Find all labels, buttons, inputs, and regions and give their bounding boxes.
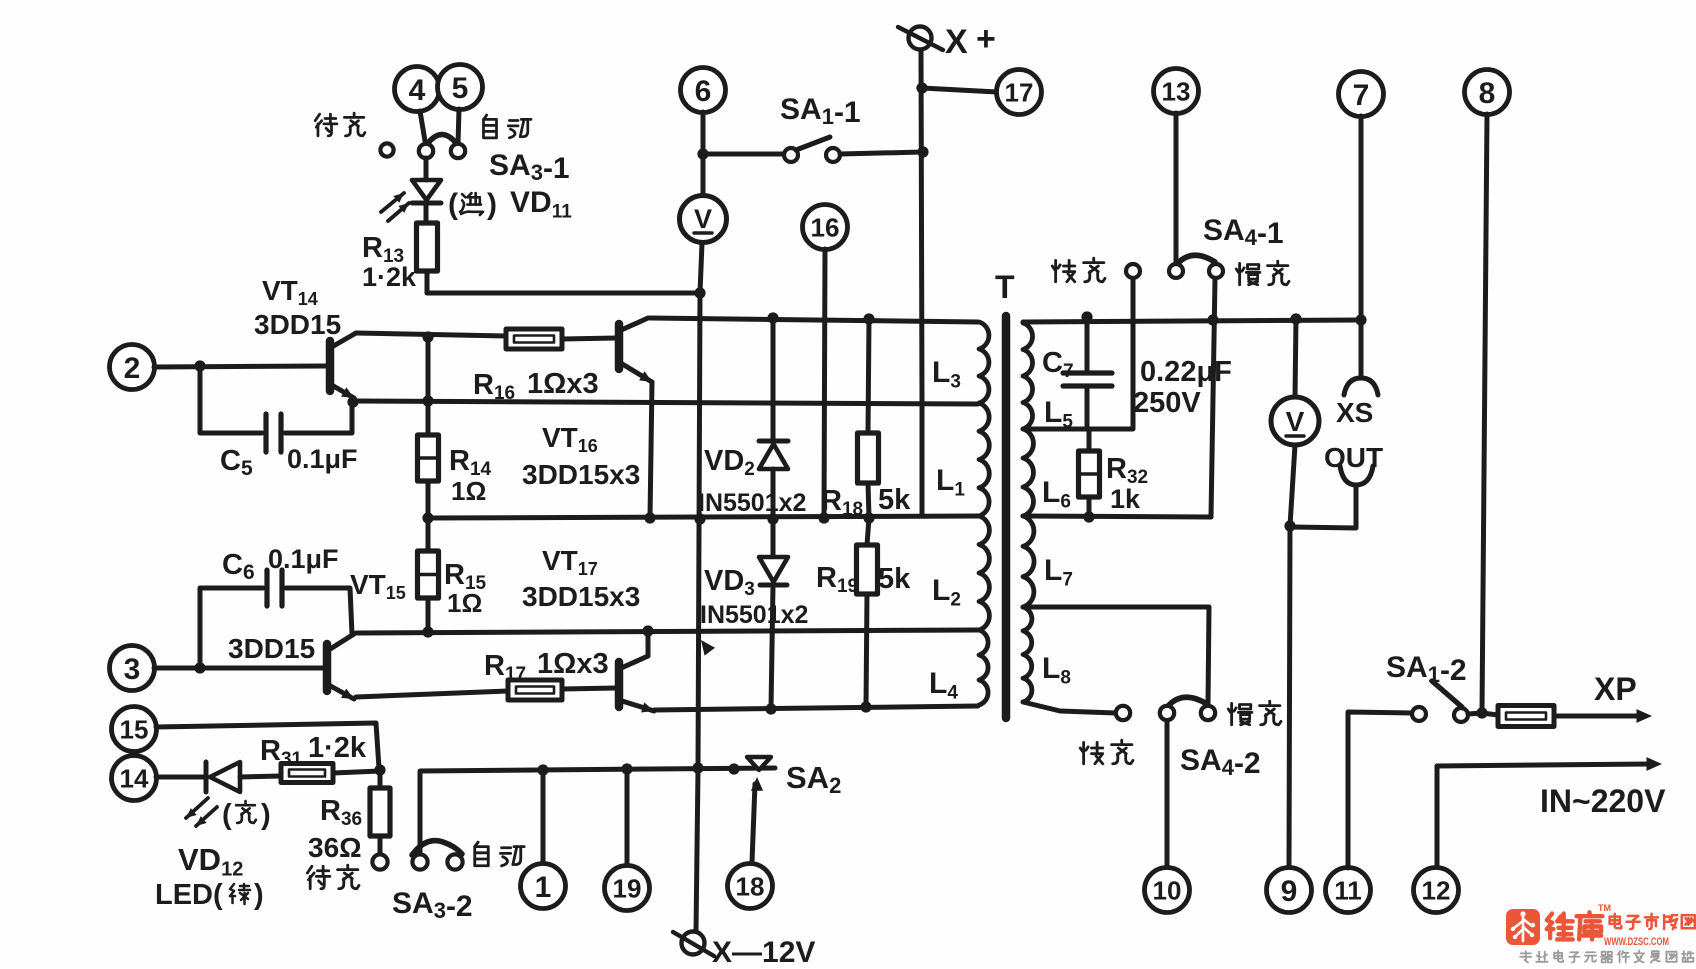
svg-text:3DD15x3: 3DD15x3 <box>522 581 640 612</box>
fuse FU <box>1482 706 1652 727</box>
svg-text:2: 2 <box>124 352 141 385</box>
wire to circle 1 <box>541 770 546 862</box>
transistor VT17 <box>619 656 654 713</box>
label 3DD15x3 (VT16) <box>522 459 640 490</box>
svg-text:T: T <box>995 269 1015 305</box>
label IN5501x2 (VD2) <box>698 489 806 517</box>
transistor VT15 <box>327 634 354 699</box>
label L6 <box>1042 476 1071 512</box>
switch SA1-1 lever <box>796 137 830 150</box>
switch SA2 plug arrow <box>751 777 763 862</box>
watermark dzsc logo <box>1506 903 1695 962</box>
label 0.1uF (C5) <box>287 444 358 474</box>
terminal circle 4 <box>395 67 440 112</box>
svg-text:3: 3 <box>124 653 141 686</box>
svg-text:SA4-2: SA4-2 <box>1180 744 1261 780</box>
label R16 1ohm x3 <box>473 368 599 404</box>
svg-text:SA3-1: SA3-1 <box>489 149 570 185</box>
winding L6 <box>1023 429 1033 516</box>
label 1ohm (R15) <box>447 588 482 618</box>
label VT15 <box>350 569 406 603</box>
switch SA1-2 left contact <box>1412 707 1426 721</box>
terminal X-12V <box>673 932 714 957</box>
resistor R13 <box>417 223 438 293</box>
terminal circle 7 <box>1339 72 1384 117</box>
wire 3 to base <box>154 662 323 673</box>
svg-text:19: 19 <box>613 873 642 903</box>
svg-text:1Ωx3: 1Ωx3 <box>527 368 599 400</box>
wire main vertical <box>692 293 703 774</box>
resistor R18 <box>858 433 879 518</box>
switch SA3-2 left contact <box>412 854 427 869</box>
label VT14 <box>262 275 318 309</box>
svg-text:(: ( <box>448 188 458 221</box>
winding L7 <box>1023 516 1034 607</box>
wire rail D <box>356 625 978 636</box>
svg-text:V: V <box>694 204 712 234</box>
wire slow contact down <box>1211 279 1215 517</box>
switch SA3-1 idle contact <box>380 143 393 156</box>
wire V2 to circle 9 <box>1289 526 1290 866</box>
wire 7 down <box>1359 116 1364 320</box>
svg-text:X—12V: X—12V <box>712 936 815 964</box>
label SA3-2 <box>392 887 473 923</box>
label L3 <box>932 356 961 392</box>
arrow on main vertical <box>701 640 715 656</box>
wire rail A right <box>562 338 617 339</box>
LED VD11 arrows <box>381 193 409 221</box>
resistor R16 <box>506 329 562 349</box>
label VT17 <box>542 545 598 579</box>
label L5 <box>1044 396 1073 432</box>
wire L6 tap rail <box>1023 511 1211 522</box>
label XP <box>1594 671 1637 707</box>
label SA3-1 <box>489 149 570 185</box>
label SA1-1 <box>780 93 861 129</box>
svg-text:V: V <box>1286 406 1305 437</box>
label T <box>995 269 1015 305</box>
svg-text:SA1-2: SA1-2 <box>1386 651 1467 687</box>
label 1ohm (R14) <box>451 476 486 506</box>
svg-text:7: 7 <box>1353 79 1370 112</box>
switch SA4-1 bridge <box>1178 255 1215 263</box>
transformer core <box>1002 316 1011 718</box>
wire 8 down <box>1476 114 1487 719</box>
label 3DD15 (VT15) <box>228 633 315 664</box>
label SA2 <box>786 760 841 798</box>
switch SA2 contact <box>747 757 771 770</box>
wire SA1-2 to node <box>1468 713 1482 714</box>
label X-12V <box>712 936 815 969</box>
svg-text:LED(: LED( <box>155 879 223 911</box>
svg-text:WWW.DZSC.COM: WWW.DZSC.COM <box>1604 936 1669 948</box>
label VD3 <box>704 565 755 600</box>
wire 14 to VD12 <box>156 775 206 780</box>
wire R13 to main vertical <box>427 287 706 298</box>
switch SA4-2 left contact <box>1116 706 1130 720</box>
meter V1 <box>680 196 727 243</box>
resistor R15 <box>418 518 439 638</box>
terminal circle 14 <box>112 756 157 801</box>
svg-text:SA4-1: SA4-1 <box>1203 214 1284 250</box>
switch SA4-2 bridge <box>1169 697 1207 705</box>
svg-text:11: 11 <box>1334 875 1362 905</box>
wire L7 tap rail <box>1023 607 1209 704</box>
svg-text:12: 12 <box>1422 875 1451 905</box>
label C7 <box>1042 347 1074 382</box>
node to circle 19 <box>621 763 632 774</box>
terminal circle 13 <box>1154 69 1199 114</box>
resistor R14 <box>418 435 439 481</box>
switch SA1-1 right contact <box>826 148 840 162</box>
label R31 1.2k <box>260 732 367 770</box>
terminal circle 19 <box>605 866 650 911</box>
svg-text:16: 16 <box>811 212 840 242</box>
label C5 <box>220 445 253 480</box>
switch SA4-1 slow contact <box>1209 264 1223 278</box>
capacitor C6 loop <box>200 570 352 668</box>
wire secondary top rail <box>1023 311 1367 325</box>
svg-text:): ) <box>254 879 264 911</box>
svg-text:1Ω: 1Ω <box>447 588 482 618</box>
label 待充 (bottom) <box>307 865 359 889</box>
label SA4-1 <box>1203 214 1284 250</box>
terminal circle 11 <box>1326 868 1371 913</box>
svg-text:1·2k: 1·2k <box>362 262 417 292</box>
svg-text:15: 15 <box>120 714 149 744</box>
switch SA4-2 slow contact <box>1201 706 1215 720</box>
terminal circle 2 <box>110 345 155 390</box>
svg-text:1·2k: 1·2k <box>308 732 367 764</box>
svg-text:+: + <box>976 20 996 58</box>
resistor R17 <box>508 680 562 700</box>
diode VD12 <box>206 762 281 792</box>
switch SA3-2 bridge <box>412 841 462 855</box>
svg-text:(: ( <box>222 799 232 831</box>
wire rail E <box>654 701 978 714</box>
svg-text:X: X <box>945 23 968 61</box>
wire SA1-1 rail <box>703 152 784 157</box>
svg-text:3DD15: 3DD15 <box>254 309 341 340</box>
wire 2 to base <box>154 360 326 371</box>
wire R14 to rail C <box>422 481 433 524</box>
svg-text:): ) <box>261 799 271 831</box>
node SA1-1 tap <box>697 148 708 159</box>
wire 15 rail <box>156 723 379 768</box>
svg-text:3DD15x3: 3DD15x3 <box>522 459 640 490</box>
switch SA3-2 right contact <box>447 854 462 869</box>
svg-text:13: 13 <box>1162 76 1191 106</box>
wire X+ vertical <box>921 50 922 403</box>
resistor R36 <box>370 770 390 854</box>
wire top rail primary <box>650 318 978 322</box>
svg-text:0.1μF: 0.1μF <box>287 444 358 474</box>
svg-text:14: 14 <box>120 763 149 793</box>
svg-text:5: 5 <box>452 72 469 105</box>
wire rail B emitter <box>354 401 978 404</box>
label R36 <box>320 795 362 830</box>
label R13 <box>362 232 404 267</box>
label R17 1ohm x3 <box>484 648 609 685</box>
switch SA1-2 right contact <box>1454 708 1468 722</box>
label XS <box>1336 397 1373 428</box>
label 待充 (top) <box>315 113 365 136</box>
svg-text:): ) <box>487 188 497 221</box>
resistor R32 <box>1079 429 1100 517</box>
svg-text:0.1μF: 0.1μF <box>268 544 339 574</box>
label 5k (R18) <box>878 484 911 516</box>
svg-text:IN5501x2: IN5501x2 <box>700 601 808 629</box>
svg-text:1Ω: 1Ω <box>451 476 486 506</box>
node X+ to 17 <box>916 82 927 93</box>
connector XS plug <box>1344 320 1378 395</box>
svg-text:XP: XP <box>1594 671 1637 707</box>
terminal circle 18 <box>728 864 773 909</box>
transistor VT14 <box>330 333 356 398</box>
wire SA4-2 to circle 10 <box>1165 721 1170 866</box>
label 快充 (SA4-2) <box>1080 740 1133 764</box>
label 3DD15 (VT14) <box>254 309 341 340</box>
wire 13 to SA4-1 <box>1174 113 1179 263</box>
label 0.1uF (C6) <box>268 544 339 574</box>
label L1 <box>936 464 965 500</box>
wire SA1-1 to X+ line <box>840 146 929 157</box>
connector XS socket <box>1292 466 1373 528</box>
label L8 <box>1042 652 1071 688</box>
svg-text:TM: TM <box>1598 903 1611 913</box>
winding L1 <box>979 403 989 516</box>
wire 5 to SA3-1 right contact <box>458 109 459 144</box>
switch SA4-1 fast contact <box>1126 264 1140 278</box>
terminal circle 5 <box>438 65 483 110</box>
capacitor C7 <box>1063 317 1112 429</box>
diode VD3 <box>759 519 788 709</box>
label (充) <box>222 799 271 831</box>
terminal circle 6 <box>681 68 726 113</box>
meter V2 <box>1271 319 1319 532</box>
label L4 <box>929 667 958 703</box>
svg-text:8: 8 <box>1479 77 1496 110</box>
resistor R19 <box>857 518 878 707</box>
label 36ohm <box>308 832 362 863</box>
wire to circle 19 <box>625 769 630 865</box>
label R19 <box>816 562 911 597</box>
LED VD12 arrows <box>186 798 217 826</box>
svg-text:3DD15: 3DD15 <box>228 633 315 664</box>
svg-text:17: 17 <box>1005 77 1034 107</box>
wire VT16 emitter down <box>644 382 655 524</box>
winding L4 <box>979 630 988 705</box>
svg-text:0.22μF: 0.22μF <box>1140 356 1232 388</box>
switch SA1-1 left contact <box>784 148 798 162</box>
terminal circle 8 <box>1465 70 1510 115</box>
wire 11 up and to SA1-2 <box>1348 712 1412 868</box>
svg-text:4: 4 <box>409 74 426 107</box>
label 快充 (SA4-1) <box>1052 258 1105 282</box>
node SA2 <box>728 763 739 774</box>
svg-text:IN5501x2: IN5501x2 <box>698 489 806 517</box>
label L7 <box>1044 554 1073 590</box>
transistor VT16 <box>619 318 652 382</box>
wire 6 down to V meter <box>701 112 706 196</box>
label IN~220V <box>1540 783 1666 819</box>
label R32 <box>1106 453 1148 488</box>
wire VT17 collector up <box>646 631 651 656</box>
node R14 top-rail <box>422 331 433 342</box>
label 慢充 (SA4-2) <box>1228 701 1281 725</box>
svg-text:18: 18 <box>736 871 765 901</box>
label 自动 (bottom) <box>475 842 524 866</box>
terminal circle 17 <box>997 70 1042 115</box>
wire R18 column <box>863 313 874 433</box>
wire rail A left <box>356 333 506 336</box>
L1 pocket edge <box>920 403 925 515</box>
switch SA3-1 left contact <box>419 144 433 158</box>
resistor R31 <box>281 764 380 783</box>
label R14 <box>449 445 492 480</box>
label 0.22uF <box>1140 356 1232 388</box>
wire main vertical lower <box>696 770 698 931</box>
label VT16 <box>542 422 598 456</box>
terminal circle 16 <box>803 205 848 250</box>
wire rail C <box>428 512 980 524</box>
svg-text:1k: 1k <box>1110 484 1141 514</box>
capacitor C5 loop <box>200 366 359 452</box>
switch SA1-2 lever <box>1432 681 1462 707</box>
terminal X+ <box>898 20 996 61</box>
svg-text:IN~220V: IN~220V <box>1540 783 1666 819</box>
LED VD11 diode <box>412 158 441 223</box>
label R15 <box>444 559 487 594</box>
label 250V <box>1133 387 1201 419</box>
switch SA3-1 right contact <box>451 144 465 158</box>
wire L5 tap rail <box>1023 279 1133 429</box>
svg-text:SA1-1: SA1-1 <box>780 93 861 129</box>
label SA1-2 <box>1386 651 1467 687</box>
label (逆) VD11 <box>448 186 572 222</box>
svg-text:6: 6 <box>695 75 712 108</box>
svg-text:5k: 5k <box>878 563 911 595</box>
terminal circle 15 <box>112 707 157 752</box>
label VD2 <box>704 445 755 480</box>
svg-text:SA3-2: SA3-2 <box>392 887 473 923</box>
terminal circle 9 <box>1267 868 1312 913</box>
wire rail F base17 <box>356 691 508 697</box>
label LED(绿) <box>155 879 264 911</box>
wire L8 bottom <box>1023 702 1116 713</box>
wire IN220 lower <box>1437 757 1662 866</box>
label IN5501x2 (VD3) <box>700 601 808 629</box>
node to circle 1 <box>537 764 548 775</box>
wire 16 down <box>818 249 829 524</box>
terminal 待充 contact <box>372 854 387 869</box>
terminal circle 1 <box>521 864 566 909</box>
switch SA3-1 bridge <box>428 135 456 144</box>
wire to circle 17 <box>922 88 997 92</box>
switch SA4-2 mid contact <box>1160 706 1174 720</box>
svg-text:XS: XS <box>1336 397 1373 428</box>
wire V meter down to R13 node <box>700 243 702 293</box>
winding L5 <box>1023 323 1033 429</box>
label C6 <box>222 549 255 584</box>
wire VD2 column <box>767 312 778 441</box>
svg-text:1: 1 <box>535 871 552 904</box>
label 1k (R32) <box>1110 484 1141 514</box>
label 自动 (top) <box>483 115 531 138</box>
switch SA4-1 mid contact <box>1169 264 1183 278</box>
label 3DD15x3 (VT17) <box>522 581 640 612</box>
svg-text:9: 9 <box>1281 875 1298 908</box>
label L2 <box>932 574 961 610</box>
wire R14 column upper <box>422 337 433 435</box>
svg-text:1Ωx3: 1Ωx3 <box>537 648 609 680</box>
winding L3 <box>979 322 989 403</box>
svg-text:5k: 5k <box>878 484 911 516</box>
wire 4 to SA3-1 left contact <box>420 111 425 141</box>
wire SA3-2 riser <box>420 768 775 854</box>
label VD12 <box>178 842 243 881</box>
label 1.2k <box>362 262 417 292</box>
terminal circle 12 <box>1414 868 1459 913</box>
label OUT <box>1324 442 1383 473</box>
diode VD2 <box>759 441 788 519</box>
wire R17 to VT17 <box>562 688 616 689</box>
label SA4-2 <box>1180 744 1261 780</box>
terminal circle 10 <box>1145 868 1190 913</box>
node R31/R36 <box>374 764 385 775</box>
winding L8 <box>1023 607 1032 702</box>
winding L2 <box>979 516 989 630</box>
label R18 <box>821 485 863 520</box>
terminal circle 3 <box>110 646 155 691</box>
label 慢充 (SA4-1) <box>1236 261 1289 285</box>
svg-text:36Ω: 36Ω <box>308 832 362 863</box>
svg-text:250V: 250V <box>1133 387 1201 419</box>
svg-text:10: 10 <box>1153 875 1182 905</box>
